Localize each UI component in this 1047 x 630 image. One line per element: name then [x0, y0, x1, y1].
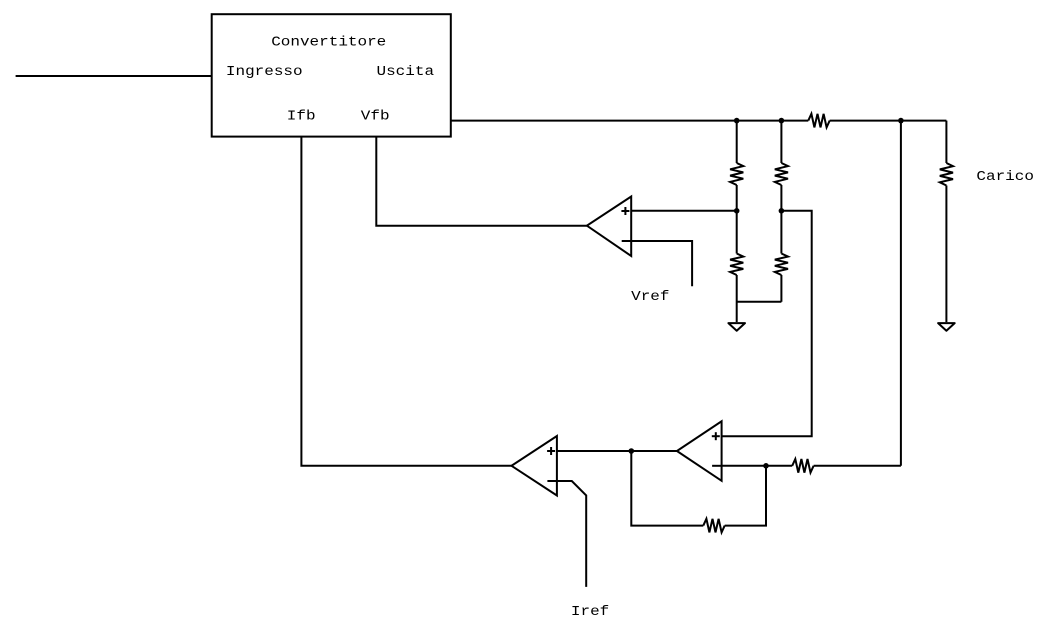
- U2 minus sign: [547, 480, 556, 482]
- svg-text:Vfb: Vfb: [361, 109, 390, 124]
- svg-text:Convertitore: Convertitore: [271, 36, 386, 51]
- resistor sense (U3 minus to rail drop): [792, 459, 813, 473]
- op-amp U2: [512, 436, 557, 496]
- resistor divider1 top: [730, 163, 743, 185]
- node U3 minus: [763, 463, 769, 469]
- wire feedback down from U2plus node: [631, 451, 703, 526]
- wire Uscita output rail: [451, 120, 809, 122]
- wire divider1 mid: [736, 185, 738, 254]
- U3 plus sign: [712, 435, 720, 437]
- wire U1 plus input to divider1 node: [631, 210, 737, 212]
- node rail-div1: [734, 118, 740, 124]
- op-amp U1: [587, 197, 631, 257]
- node divider1 mid: [734, 208, 740, 214]
- wire Vfb to U1 output: [376, 137, 587, 226]
- wire divider2 mid: [780, 185, 782, 254]
- wire Carico drop: [945, 121, 947, 163]
- resistor R1 (top rail): [808, 114, 829, 128]
- wire divider2 lower: [780, 275, 782, 302]
- node rail-sense: [898, 118, 904, 124]
- resistor Carico: [940, 163, 953, 186]
- resistor divider2 top: [775, 163, 788, 185]
- svg-text:Vref: Vref: [631, 290, 669, 305]
- node U2plus-U3out: [629, 448, 635, 454]
- wire U1 minus input to Vref: [631, 241, 692, 286]
- U1 plus sign: [621, 210, 629, 212]
- wire R sense to vertical drop: [814, 465, 901, 467]
- converter block box: [212, 14, 451, 136]
- node divider2 mid: [779, 208, 785, 214]
- wire Ifb to U2 output: [301, 137, 511, 466]
- svg-text:Ifb: Ifb: [287, 109, 316, 124]
- wire U2 plus to U3 output: [557, 450, 677, 452]
- wire rail drop (node to U3 minus resistor): [900, 121, 902, 466]
- wire rail right of R1: [830, 120, 947, 122]
- svg-text:Iref: Iref: [571, 605, 609, 620]
- resistor divider2 bottom: [775, 254, 788, 276]
- svg-text:Carico: Carico: [976, 170, 1034, 185]
- U3 minus sign: [712, 465, 721, 467]
- svg-text:Uscita: Uscita: [377, 65, 435, 80]
- ground (divider): [728, 323, 745, 331]
- wire U3 minus line: [722, 465, 793, 467]
- wire feedback up to U3 minus node: [725, 466, 766, 526]
- U1 minus sign: [622, 240, 631, 242]
- op-amp U3: [677, 421, 722, 481]
- wire divider2 upper: [780, 121, 782, 163]
- ground (Carico): [938, 323, 955, 331]
- wire input left: [16, 75, 212, 77]
- wire U2 minus to Iref: [557, 481, 586, 587]
- wire divider join: [737, 301, 782, 303]
- wire divider2 tap to sense line: [722, 211, 812, 436]
- wire divider1 upper: [736, 121, 738, 163]
- resistor divider1 bottom: [730, 254, 743, 276]
- wire Carico to ground: [945, 186, 947, 323]
- resistor feedback: [703, 519, 724, 533]
- wire divider1 lower: [736, 275, 738, 322]
- svg-text:Ingresso: Ingresso: [226, 65, 303, 80]
- U2 plus sign: [547, 450, 555, 452]
- node rail-div2: [779, 118, 785, 124]
